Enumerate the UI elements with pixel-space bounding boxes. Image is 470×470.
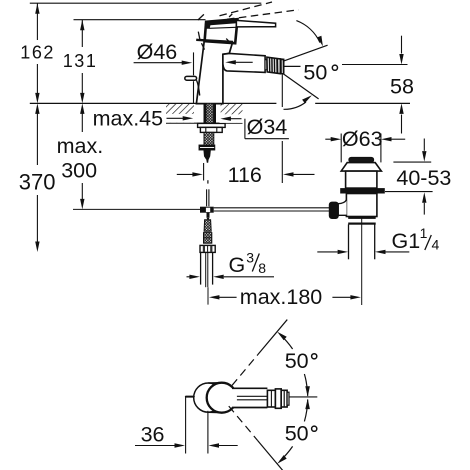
- hose centreline dash: [207, 180, 209, 183]
- dimension 162/370 vertical line with arrows: [35, 3, 39, 252]
- swivel ray upper dashed: [232, 355, 258, 386]
- svg-text:300: 300: [61, 159, 97, 183]
- dimension 40-53 arrows: [385, 139, 433, 215]
- svg-text:50: 50: [303, 61, 327, 85]
- pop-up plug: [349, 158, 374, 163]
- svg-text:G: G: [229, 253, 246, 277]
- swivel ray upper solid: [258, 320, 288, 355]
- plan spout arm: [232, 388, 267, 407]
- plan pop-up pin: [186, 396, 194, 398]
- drain valve body: [346, 194, 377, 217]
- angle arc upper (50 deg): [296, 21, 323, 47]
- dimension max.180 arrows: [209, 295, 361, 299]
- supply pipe G3/8 thread: [201, 253, 213, 305]
- wire max.300 reference line: [73, 208, 200, 210]
- swivel ray lower solid: [258, 441, 295, 470]
- svg-text:4: 4: [432, 237, 440, 253]
- pop-up rod vertical: [207, 189, 209, 206]
- svg-text:max.180: max.180: [240, 285, 323, 309]
- dimension Ø34 leader bracket: [220, 114, 289, 138]
- hose braid upper segment: [204, 220, 211, 231]
- drain flange: [341, 163, 381, 172]
- label 50 deg plan upper: [285, 349, 317, 373]
- svg-text:58: 58: [390, 75, 414, 99]
- lever grip: [205, 20, 237, 29]
- faucet body: [196, 41, 232, 104]
- spout angle upper ray: [283, 45, 327, 61]
- cartridge housing (bold outline): [205, 19, 238, 43]
- pop-up rod knob: [185, 76, 200, 95]
- label G1 1/4: [392, 225, 440, 253]
- rod clamp cross: [200, 207, 214, 221]
- angle arc lower (50 deg): [284, 95, 312, 109]
- svg-text:Ø34: Ø34: [247, 115, 288, 139]
- horizontal pop-up rod: [214, 208, 330, 211]
- svg-text:162: 162: [20, 42, 55, 62]
- hose collar: [199, 145, 214, 150]
- swivel ray lower dashed: [229, 406, 258, 440]
- drain centreline: [361, 217, 363, 305]
- faucet spout cone: [223, 53, 265, 72]
- svg-text:Ø46: Ø46: [137, 40, 178, 64]
- dimension 131/max.300 vertical line with arrows: [80, 20, 84, 210]
- wire top reference line (faucet top, y=3.2): [30, 2, 261, 4]
- drain flange extension line left: [340, 134, 342, 163]
- svg-text:G1: G1: [392, 229, 421, 253]
- lever rod: [236, 20, 275, 27]
- svg-text:1: 1: [420, 225, 428, 241]
- flexible hose braid: [204, 132, 214, 145]
- wire deck reference line left part: [30, 102, 277, 104]
- dimension 116 arrows: [177, 141, 315, 183]
- dimension 58 arrows: [342, 36, 408, 134]
- svg-text:Ø63: Ø63: [342, 127, 383, 151]
- aerator neck: [265, 60, 267, 70]
- svg-text:36: 36: [141, 422, 165, 446]
- svg-text:40-53: 40-53: [396, 166, 451, 190]
- svg-text:50: 50: [285, 422, 309, 446]
- dimension Ø46 leader with arrows: [134, 52, 253, 103]
- hose end tip: [203, 150, 211, 163]
- spout angle lower ray: [283, 74, 318, 99]
- aerator tip extension line: [281, 75, 283, 108]
- rod adjustment knob: [329, 202, 338, 218]
- threaded shank in deck hole: [204, 104, 217, 124]
- dimension 36 arrows: [135, 397, 238, 454]
- plan aerator: [267, 389, 289, 408]
- svg-text:50: 50: [285, 349, 309, 373]
- svg-text:131: 131: [63, 51, 98, 71]
- G3/8 union nut: [200, 245, 215, 252]
- label 50 deg elevation: [303, 61, 337, 85]
- svg-text:max.: max.: [57, 134, 104, 158]
- drain side port: [338, 200, 346, 216]
- dimension G3/8 arrows: [187, 275, 275, 279]
- dimension G1 1/4 arrows: [317, 250, 409, 254]
- body top bold edge: [196, 40, 233, 42]
- drain neck: [346, 171, 377, 188]
- svg-text:370: 370: [19, 169, 56, 194]
- aerator end cap: [280, 59, 283, 74]
- washer under deck: [198, 123, 226, 127]
- spout axis stub: [284, 65, 301, 67]
- label G3/8: [229, 249, 267, 277]
- hose braid lower segment: [204, 233, 212, 244]
- tailpipe G1 1/4: [349, 224, 375, 259]
- wire deck reference line right part: [315, 102, 410, 104]
- drain flange extension line right: [380, 134, 382, 163]
- seal ring: [340, 188, 385, 193]
- plan base circle (bold): [207, 383, 237, 413]
- dimension max.45 leader: [164, 114, 194, 123]
- angle arc plan lower (50 deg): [277, 399, 310, 464]
- aerator knurled body: [267, 57, 281, 73]
- lever raised position (dashed): [198, 2, 299, 50]
- coupling nut rings: [348, 217, 376, 225]
- svg-text:8: 8: [258, 260, 266, 276]
- plan body capsule: [194, 383, 223, 413]
- deck cross-section with hatching: [166, 104, 243, 123]
- dimension Ø63 arrows: [325, 137, 405, 141]
- svg-text:116: 116: [228, 163, 262, 187]
- mounting nut: [200, 127, 222, 132]
- label 50 deg plan lower: [285, 422, 317, 446]
- angle arc plan upper (50 deg): [277, 332, 310, 397]
- plan axis line: [289, 396, 317, 398]
- svg-text:3: 3: [246, 249, 254, 265]
- wire spout-height reference line (y=19.7): [74, 19, 206, 21]
- svg-text:max.45: max.45: [93, 106, 164, 130]
